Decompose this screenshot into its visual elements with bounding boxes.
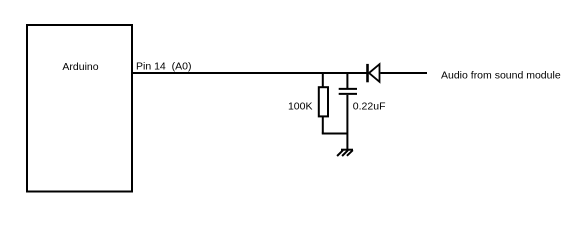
resistor R1 body	[319, 87, 328, 116]
diode D1 triangle (anode, pointing left)	[369, 64, 380, 82]
svg-text:Audio from sound module: Audio from sound module	[441, 70, 561, 82]
wire: below resistor R1	[322, 116, 324, 133]
svg-text:Pin 14 (A0): Pin 14 (A0)	[136, 61, 191, 73]
svg-text:0.22uF: 0.22uF	[353, 101, 386, 113]
wire: below capacitor C1 to ground	[346, 95, 348, 150]
Arduino module box U1	[27, 25, 132, 192]
diode D1 cathode bar	[366, 64, 369, 82]
wire: branch down to resistor R1	[322, 73, 324, 87]
capacitor C1 top plate	[339, 88, 357, 90]
wire: Pin 14 horizontal to diode cathode	[131, 72, 367, 74]
svg-text:100K: 100K	[288, 101, 313, 113]
capacitor C1 bottom plate	[339, 93, 357, 95]
wire: branch down to capacitor C1	[346, 73, 348, 88]
wire: diode anode to audio source	[380, 72, 427, 74]
ground	[337, 150, 353, 156]
wire: bottom connector R1 to C1	[322, 133, 348, 135]
svg-text:Arduino: Arduino	[62, 61, 98, 73]
